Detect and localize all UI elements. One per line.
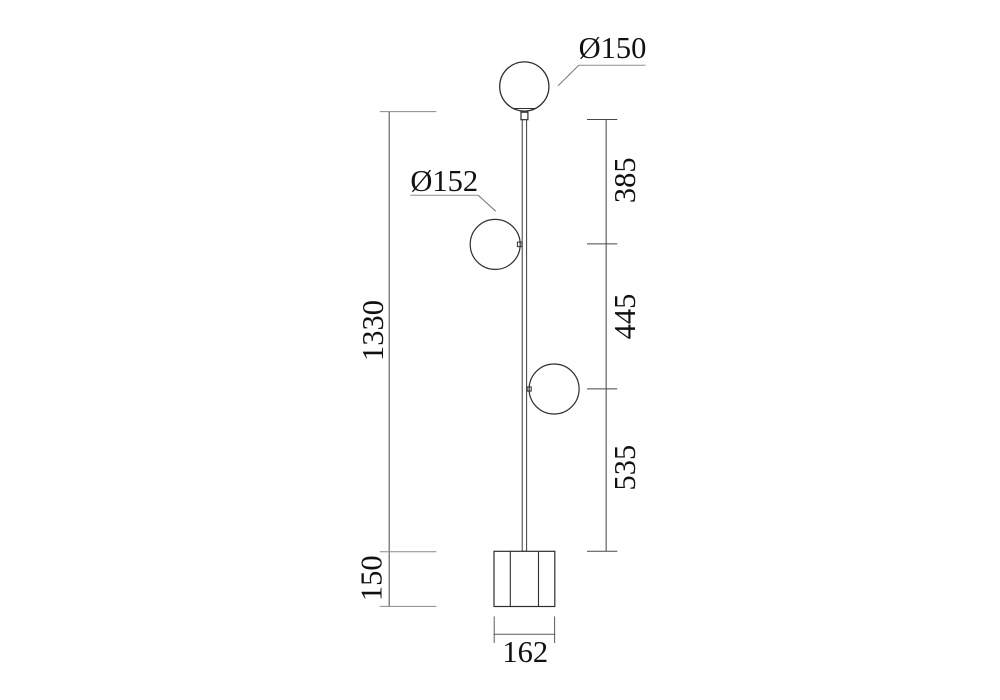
- bottom dimension extension right: [554, 616, 556, 643]
- leader diagonal D152: [478, 195, 496, 211]
- pole: [522, 120, 526, 552]
- svg-text:385: 385: [608, 157, 642, 203]
- base cylinder: [494, 551, 555, 606]
- connector sphere3-pole: [527, 387, 531, 391]
- svg-text:Ø152: Ø152: [410, 164, 478, 198]
- right tick 3: [587, 388, 617, 390]
- globe bottom chord: [513, 108, 536, 110]
- svg-text:162: 162: [502, 635, 548, 669]
- bottom dimension extension left: [493, 616, 495, 643]
- svg-text:1330: 1330: [356, 300, 390, 361]
- left tick middle: [380, 551, 437, 553]
- right tick 2: [587, 243, 617, 245]
- svg-text:150: 150: [355, 555, 389, 601]
- globe top (sphere): [500, 62, 549, 111]
- leader diagonal D150: [558, 65, 579, 86]
- bottom dimension line: [494, 633, 556, 635]
- connector sphere2-pole: [517, 242, 522, 247]
- base shading line right: [538, 551, 540, 606]
- right dimension line vertical: [605, 120, 607, 552]
- globe lower (sphere 3): [529, 364, 579, 414]
- svg-text:535: 535: [608, 445, 642, 491]
- leader underline D150: [579, 64, 646, 66]
- globe neck connector: [521, 112, 528, 120]
- right tick 4: [587, 550, 617, 552]
- leader underline D152: [410, 194, 478, 196]
- left tick bottom: [380, 605, 437, 607]
- left tick top: [380, 111, 437, 113]
- svg-text:Ø150: Ø150: [579, 31, 647, 65]
- base shading line left: [509, 551, 511, 606]
- right tick 1: [587, 119, 617, 121]
- svg-text:445: 445: [608, 294, 642, 340]
- globe middle (sphere 2): [470, 219, 520, 269]
- left dimension line vertical: [388, 112, 390, 607]
